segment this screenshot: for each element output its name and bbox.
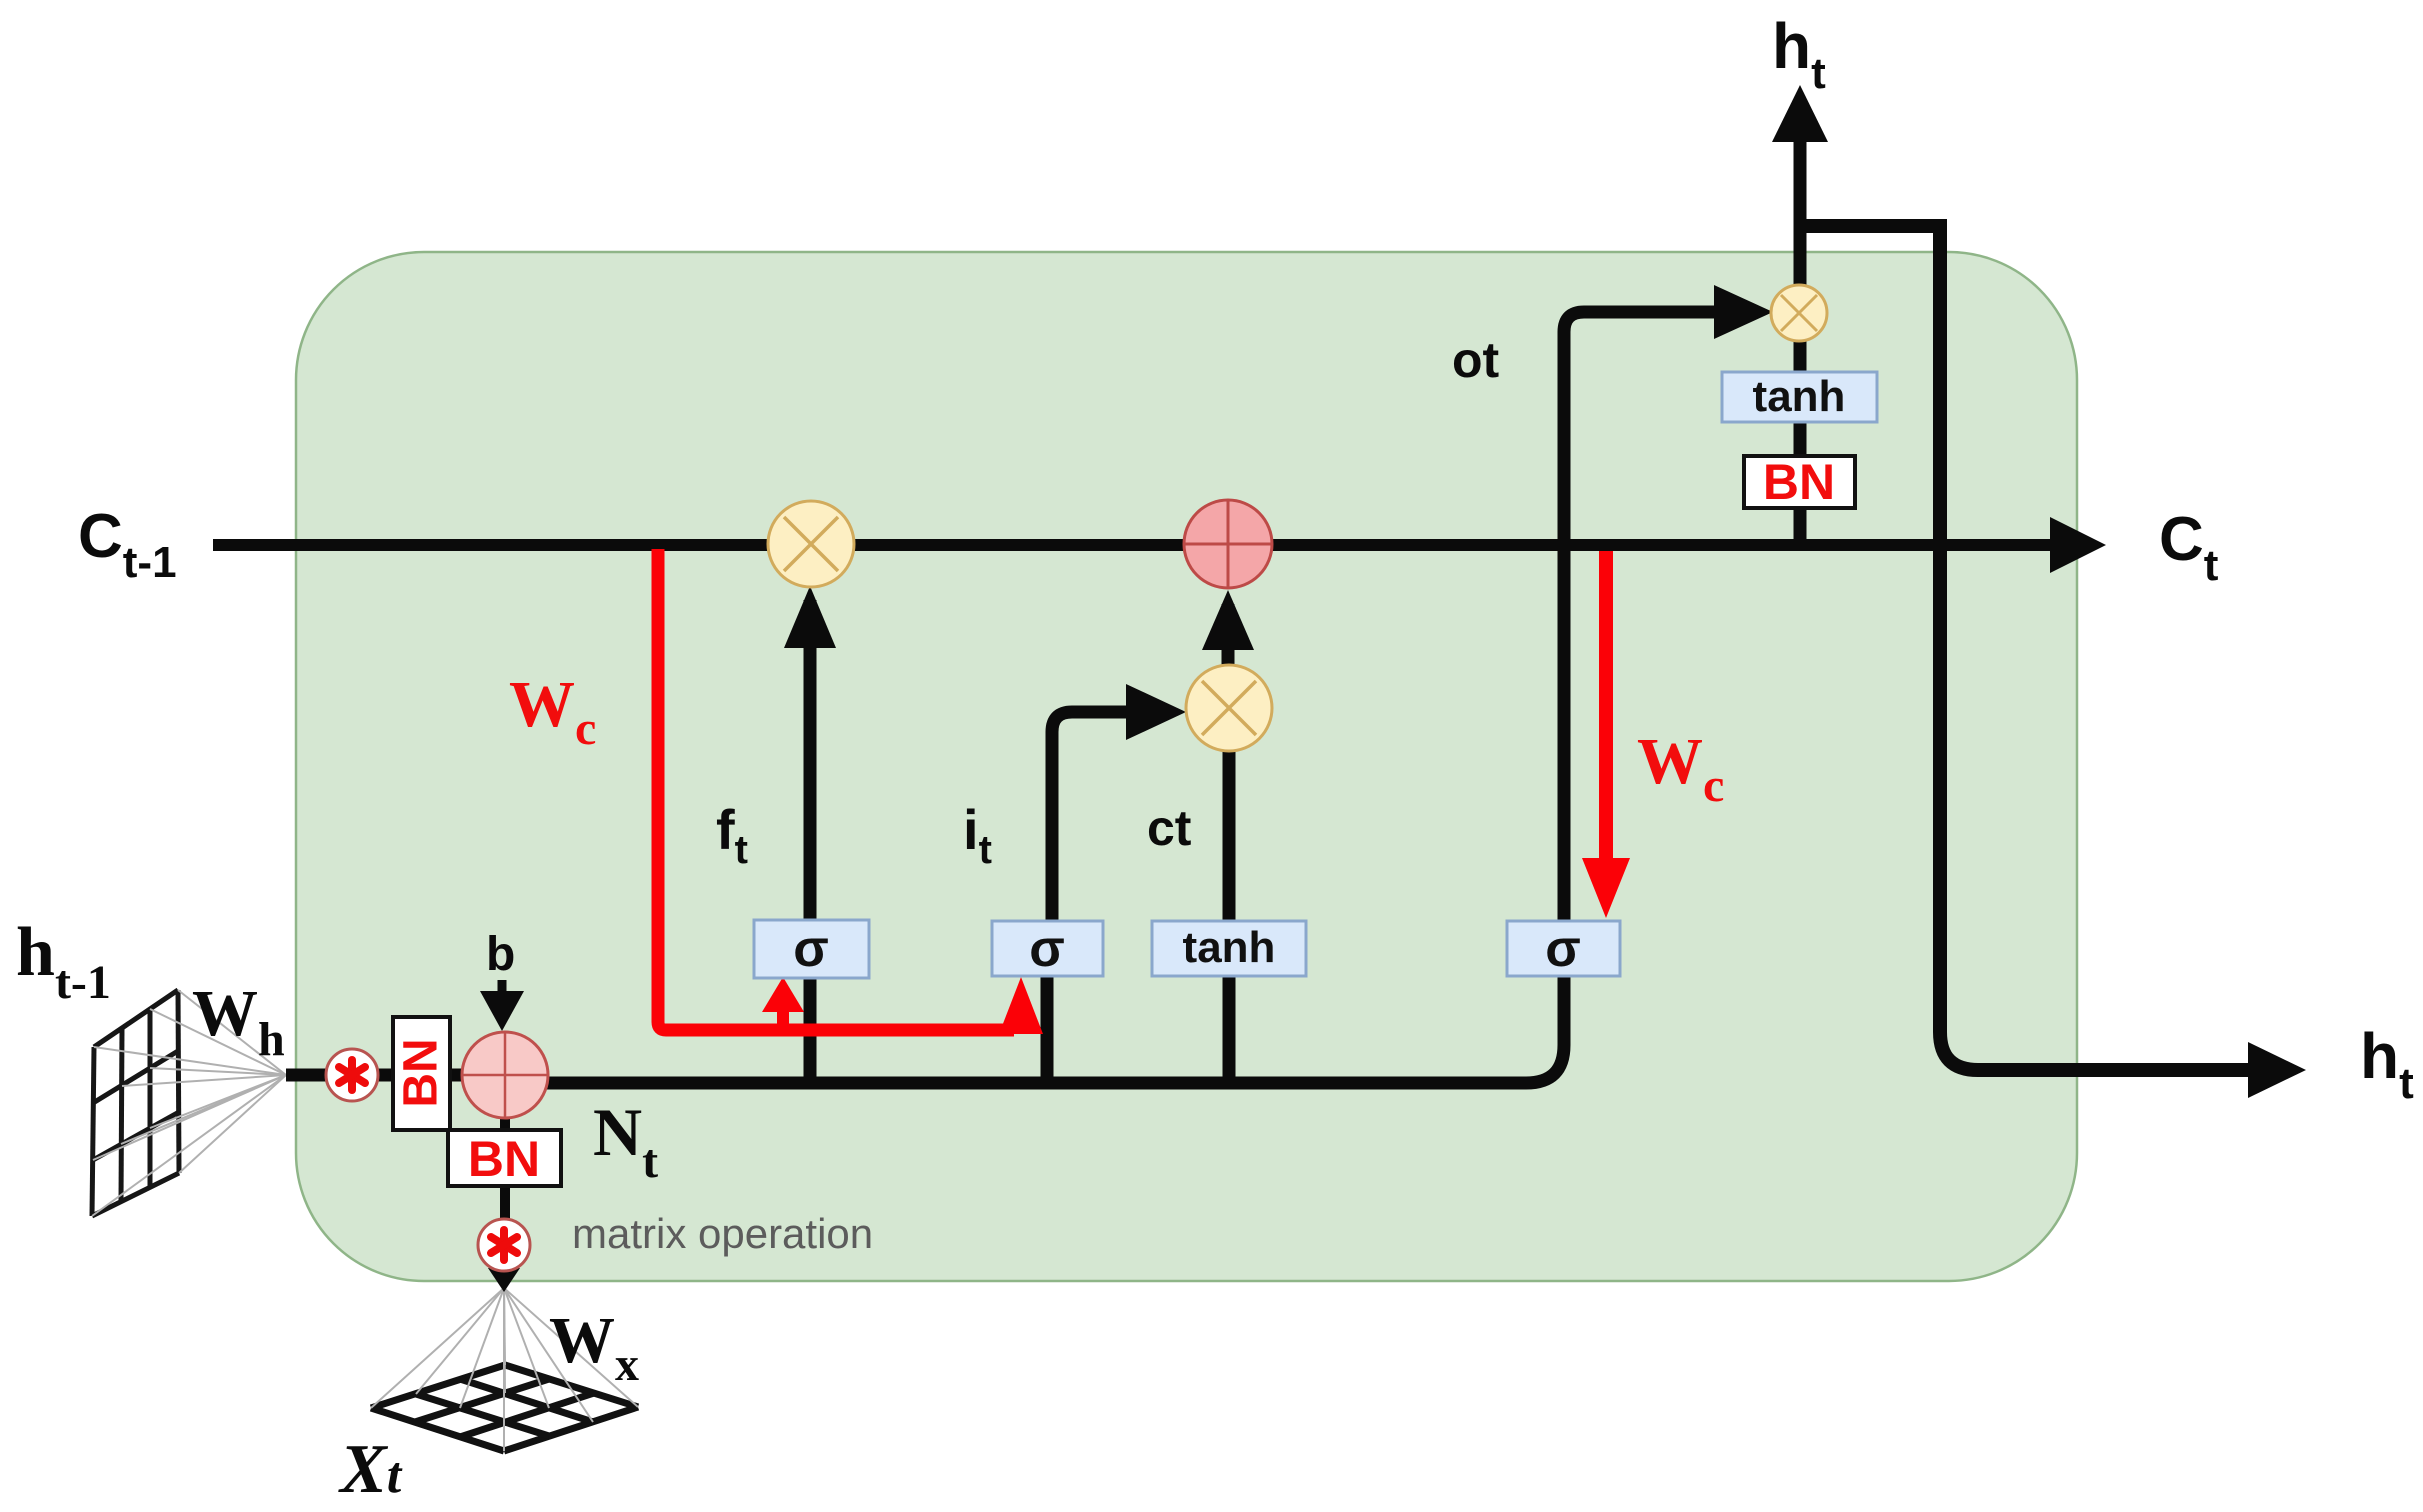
sigma box 2 xyxy=(992,920,1103,978)
add gate big input xyxy=(462,1032,548,1118)
BN box vertical left xyxy=(393,1017,450,1130)
small arrowhead below matmul2 xyxy=(500,1271,508,1276)
fan lines to X_t matrix xyxy=(371,1288,638,1451)
multiply gate output xyxy=(1771,285,1827,341)
svg-text:ot: ot xyxy=(1452,332,1500,388)
arrowhead i_t into candidate multiply gate xyxy=(1126,684,1186,740)
arrowhead h_t top xyxy=(1772,85,1828,142)
svg-text:σ: σ xyxy=(1029,920,1065,978)
matmul star left xyxy=(326,1049,378,1101)
wire big add gate down through BN to matmul xyxy=(500,1118,510,1132)
multiply gate forget xyxy=(768,501,854,587)
svg-text:ht-1: ht-1 xyxy=(16,914,111,1009)
wire h_t vertical output xyxy=(1794,120,1807,545)
svg-text:Ct-1: Ct-1 xyxy=(78,502,177,587)
LSTM cell body xyxy=(296,252,2077,1281)
sigma box 1 xyxy=(754,920,869,978)
red W_c right arrow xyxy=(1599,551,1613,862)
wire N_t horizontal xyxy=(505,976,1564,1083)
svg-text:b: b xyxy=(486,928,515,981)
tanh box bottom xyxy=(1152,921,1306,976)
wire h_t loop right and out xyxy=(1800,226,2250,1070)
svg-text:ct: ct xyxy=(1147,800,1192,856)
wire b bias arrow xyxy=(498,980,507,998)
svg-text:σ: σ xyxy=(793,920,829,978)
svg-text:BN: BN xyxy=(468,1131,540,1187)
svg-text:ht: ht xyxy=(1772,10,1826,98)
svg-text:BN: BN xyxy=(1763,454,1835,510)
svg-text:Wx: Wx xyxy=(549,1304,639,1391)
wire tanh1 up to candidate multiply xyxy=(1223,751,1236,921)
arrowhead C_t xyxy=(2050,517,2106,573)
svg-text:Xt: Xt xyxy=(338,1431,403,1508)
wire input gate i_t elbow xyxy=(1052,712,1168,921)
wire cell state line xyxy=(213,539,2052,551)
BN box top right xyxy=(1744,454,1855,510)
svg-text:ht: ht xyxy=(2360,1020,2414,1108)
tanh box top xyxy=(1722,372,1877,422)
arrowhead h_t right output xyxy=(2248,1042,2306,1098)
add gate cell line xyxy=(1184,500,1272,588)
red W_c left path with two arrows xyxy=(658,549,1014,1030)
svg-text:Ct: Ct xyxy=(2159,505,2219,590)
sigma box 4 xyxy=(1507,920,1620,978)
BN box horizontal xyxy=(448,1130,561,1187)
red arrowhead large into sigma2 xyxy=(999,977,1043,1034)
svg-text:σ: σ xyxy=(1545,920,1581,978)
arrowhead ct into add gate xyxy=(1202,590,1254,650)
wire forget gate vertical f_t xyxy=(804,600,817,1083)
wire tanh1 down to N_t xyxy=(1223,976,1236,1083)
matrix W_h grid xyxy=(92,990,179,1216)
matmul star bottom xyxy=(478,1219,530,1271)
matrix X_t grid xyxy=(371,1365,638,1451)
wire candidate ct up into add gate xyxy=(1222,604,1235,665)
svg-text:tanh: tanh xyxy=(1183,923,1276,972)
arrowhead ot into output multiply xyxy=(1714,285,1773,339)
svg-text:tanh: tanh xyxy=(1753,372,1846,421)
red arrowhead small into sigma1 xyxy=(777,1008,789,1030)
arrowhead b into add gate xyxy=(480,991,524,1031)
wire sigma2 down to N_t xyxy=(1041,976,1054,1083)
fan lines from W_h matrix xyxy=(92,990,286,1216)
wire input line through matmul and BN xyxy=(286,1069,466,1082)
svg-text:matrix operation: matrix operation xyxy=(572,1210,873,1257)
svg-text:BN: BN xyxy=(395,1038,448,1107)
arrowhead f_t into multiply gate xyxy=(784,586,836,648)
multiply gate candidate xyxy=(1186,665,1272,751)
wire ot elbow to output multiply gate xyxy=(1564,312,1756,921)
